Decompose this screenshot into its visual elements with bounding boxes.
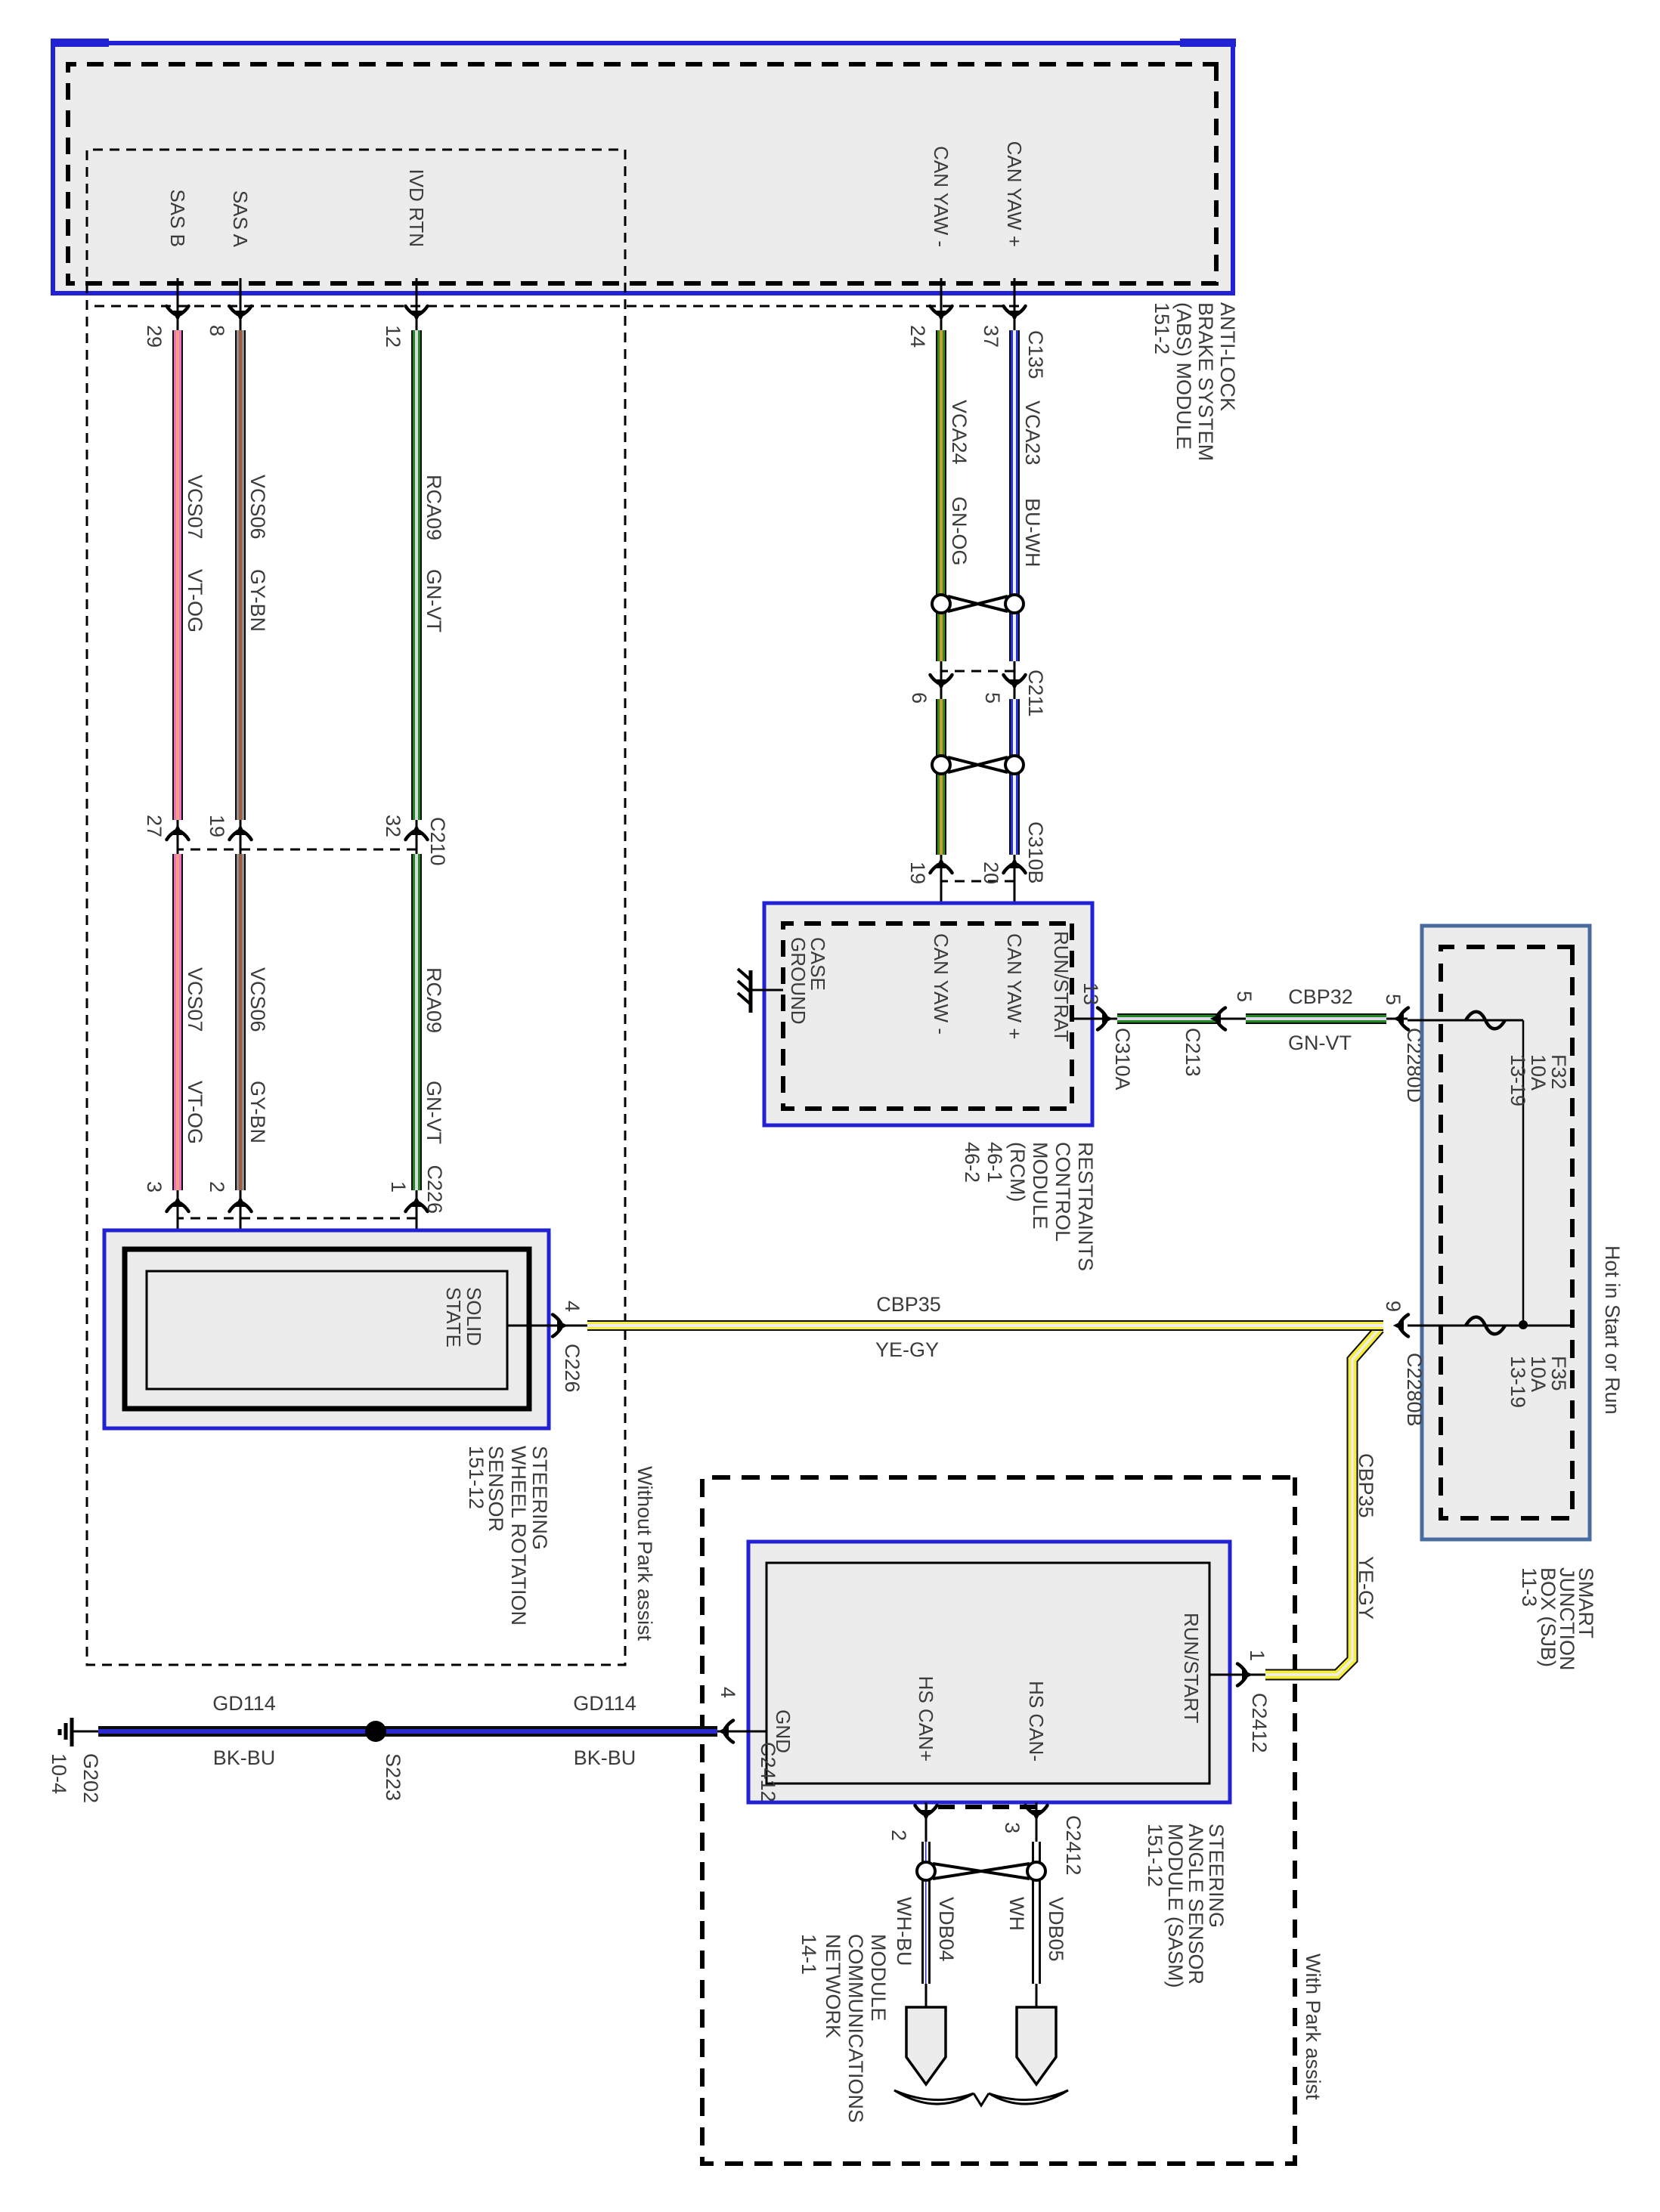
- svg-text:GD114: GD114: [573, 1692, 636, 1715]
- svg-text:VT-OG: VT-OG: [184, 1081, 206, 1144]
- svg-text:8: 8: [206, 325, 228, 336]
- svg-text:CAN YAW +: CAN YAW +: [1003, 933, 1026, 1039]
- svg-text:WH-BU: WH-BU: [893, 1897, 915, 1966]
- wire GD114 BK-BU: [98, 1726, 717, 1737]
- connector arrow SASM pin 3: [1026, 1805, 1048, 1819]
- svg-text:46-2: 46-2: [961, 1142, 983, 1183]
- svg-text:CBP32: CBP32: [1288, 985, 1353, 1008]
- svg-text:29: 29: [143, 325, 166, 348]
- svg-text:RESTRAINTS: RESTRAINTS: [1074, 1142, 1097, 1271]
- svg-text:SAS B: SAS B: [166, 189, 189, 247]
- module communications network label: [797, 1934, 890, 2123]
- svg-text:HS CAN+: HS CAN+: [915, 1676, 937, 1762]
- ABS module connector tab bottom: [51, 39, 109, 47]
- ABS module connector tab top: [1180, 39, 1236, 47]
- svg-text:MODULE (SASM): MODULE (SASM): [1164, 1824, 1187, 1988]
- svg-text:YE-GY: YE-GY: [1355, 1556, 1377, 1620]
- svg-text:GN-VT: GN-VT: [423, 1081, 445, 1144]
- SWRS inner box: [147, 1271, 507, 1389]
- svg-text:GN-VT: GN-VT: [423, 569, 445, 633]
- connector C210 dashed line: [178, 849, 417, 851]
- svg-text:(RCM): (RCM): [1006, 1142, 1029, 1202]
- connector C211 dashed line: [941, 670, 1014, 673]
- svg-text:10-4: 10-4: [48, 1753, 70, 1794]
- svg-text:24: 24: [906, 325, 929, 348]
- svg-text:C310B: C310B: [1024, 821, 1047, 884]
- SASM pin 4 GND wire: [715, 1731, 767, 1733]
- svg-text:10A: 10A: [1527, 1356, 1550, 1392]
- svg-text:RUN/STRAT: RUN/STRAT: [1050, 931, 1073, 1042]
- svg-text:5: 5: [1233, 991, 1256, 1002]
- svg-text:C2412: C2412: [1248, 1693, 1271, 1753]
- svg-text:20: 20: [980, 862, 1002, 884]
- svg-text:VCS07: VCS07: [184, 475, 206, 540]
- fuse F35 label: [1507, 1356, 1570, 1408]
- SWRS label SOLID STATE: [442, 1287, 485, 1347]
- svg-text:CAN YAW -: CAN YAW -: [930, 146, 952, 247]
- connector arrow SJB pin 5 C2280D: [1395, 1008, 1408, 1030]
- svg-text:5: 5: [981, 692, 1004, 704]
- connector arrow C211 pin 5: [1004, 675, 1026, 688]
- wire VCA24 GN-OG segment 2: [936, 699, 946, 855]
- connector arrow ABS pin 24: [931, 306, 952, 320]
- svg-text:13: 13: [1079, 982, 1102, 1005]
- connector arrow C211 pin 6: [931, 675, 952, 688]
- svg-text:NETWORK: NETWORK: [822, 1934, 844, 2038]
- wire RCA09 GN-VT segment 2: [411, 854, 422, 1190]
- connector arrow C213 pin 5: [1212, 1008, 1225, 1030]
- svg-text:MODULE: MODULE: [867, 1934, 890, 2022]
- svg-text:151-12: 151-12: [1144, 1824, 1166, 1887]
- SJB module box: [1422, 926, 1590, 1539]
- svg-text:VCS07: VCS07: [184, 967, 206, 1032]
- svg-text:WHEEL ROTATION: WHEEL ROTATION: [507, 1446, 530, 1626]
- ABS module box: [53, 43, 1233, 293]
- svg-text:1: 1: [1246, 1650, 1268, 1661]
- wire RCA09 GN-VT segment 1: [411, 330, 422, 820]
- wire VCS06 GY-BN segment 2: [235, 854, 246, 1190]
- svg-text:C226: C226: [423, 1165, 446, 1214]
- twisted pair symbol 2: [932, 756, 1024, 774]
- svg-text:C2412: C2412: [1062, 1815, 1085, 1876]
- ABS module label: [1151, 302, 1239, 461]
- svg-text:VT-OG: VT-OG: [184, 569, 206, 633]
- connector arrow SASM pin 1 C2412: [1237, 1664, 1251, 1686]
- svg-text:C135: C135: [1024, 330, 1047, 379]
- svg-text:STEERING: STEERING: [1205, 1824, 1228, 1928]
- RCM module label: [961, 1142, 1097, 1271]
- svg-text:3: 3: [1001, 1822, 1024, 1833]
- svg-text:19: 19: [906, 862, 929, 884]
- svg-text:WH: WH: [1005, 1897, 1028, 1931]
- svg-text:(ABS) MODULE: (ABS) MODULE: [1172, 302, 1195, 450]
- connector arrow C310B pin 20: [1004, 859, 1026, 873]
- svg-text:C211: C211: [1024, 670, 1047, 717]
- svg-text:2: 2: [887, 1830, 910, 1841]
- With Park assist dashed box: [702, 1477, 1295, 2164]
- svg-text:5: 5: [1382, 994, 1404, 1005]
- RCM case ground symbol: [738, 969, 751, 1013]
- G202 ground wire stub: [73, 1731, 98, 1733]
- svg-text:F35: F35: [1547, 1356, 1570, 1391]
- svg-text:VCS06: VCS06: [246, 967, 269, 1032]
- svg-text:C213: C213: [1182, 1028, 1204, 1077]
- svg-text:CAN YAW +: CAN YAW +: [1003, 141, 1026, 247]
- svg-text:IVD RTN: IVD RTN: [405, 169, 428, 247]
- off-page arrow upper: [1017, 2007, 1056, 2084]
- SWRS module box: [104, 1230, 549, 1428]
- SWRS module label: [465, 1446, 551, 1626]
- SJB F32 wire: [1408, 1019, 1523, 1022]
- wire IVD RTN thin path: [416, 278, 418, 1271]
- svg-text:GN-OG: GN-OG: [948, 497, 971, 566]
- svg-text:37: 37: [980, 325, 1002, 348]
- SASM pin 1 wire: [1209, 1674, 1265, 1676]
- fuse F35: [1466, 1317, 1505, 1335]
- svg-text:GN-VT: GN-VT: [1288, 1032, 1352, 1054]
- fuse F32 label: [1507, 1054, 1570, 1106]
- svg-text:4: 4: [717, 1687, 739, 1698]
- SASM module label: [1144, 1824, 1228, 1988]
- wire VCS07 VT-OG segment 2: [172, 854, 183, 1190]
- SJB module label: [1518, 1567, 1597, 1671]
- Without Park assist dashed box: [87, 150, 625, 1665]
- svg-text:2: 2: [206, 1181, 228, 1193]
- svg-text:13-19: 13-19: [1507, 1054, 1529, 1106]
- svg-text:151-12: 151-12: [465, 1446, 488, 1509]
- svg-text:BRAKE SYSTEM: BRAKE SYSTEM: [1194, 302, 1217, 461]
- wire CBP35 YE-GY main vertical: [587, 1320, 1383, 1331]
- svg-text:19: 19: [206, 815, 228, 837]
- wire CBP32 thin path: [1072, 1018, 1408, 1020]
- fuse F32: [1466, 1012, 1505, 1029]
- svg-text:1: 1: [387, 1181, 410, 1193]
- svg-text:9: 9: [1382, 1301, 1404, 1312]
- wire VCS06 GY-BN segment 1: [235, 330, 246, 820]
- wire CAN YAW + thin path: [1014, 278, 1016, 923]
- wire CBP32 GN-VT segment upper: [1246, 1013, 1386, 1024]
- svg-text:C2280B: C2280B: [1403, 1353, 1426, 1427]
- SASM inner box: [767, 1563, 1209, 1784]
- SASM pin 2 wire stub: [925, 1802, 928, 1842]
- wire VDB05 WH: [1032, 1842, 1041, 1984]
- svg-text:GY-BN: GY-BN: [246, 1081, 269, 1143]
- off-page arrow lower: [906, 2007, 946, 2084]
- connector arrow C226 pin 3: [167, 1198, 189, 1211]
- wire VCS07 VT-OG segment 1: [172, 330, 183, 820]
- svg-text:13-19: 13-19: [1507, 1356, 1529, 1408]
- svg-text:3: 3: [143, 1181, 166, 1193]
- svg-text:G202: G202: [79, 1753, 102, 1803]
- connector arrow SASM pin 4 C2412: [720, 1721, 733, 1743]
- svg-text:32: 32: [382, 815, 404, 837]
- wire CBP32 GN-VT segment lower: [1117, 1013, 1217, 1024]
- twisted pair symbol HS CAN: [917, 1862, 1045, 1880]
- RCM case ground wire: [752, 989, 783, 992]
- connector arrow C210 pin 19: [230, 826, 252, 840]
- svg-text:12: 12: [382, 325, 404, 348]
- svg-text:MODULE: MODULE: [1029, 1142, 1051, 1230]
- RCM module box: [764, 903, 1092, 1125]
- wire VCA23 BU-WH segment 2: [1009, 699, 1020, 855]
- SJB dashed outline: [1441, 947, 1572, 1518]
- svg-text:C2412: C2412: [757, 1742, 779, 1802]
- svg-text:CAN YAW -: CAN YAW -: [930, 933, 952, 1035]
- ground G202 symbol: [60, 1718, 72, 1746]
- connector C2412 dashed line pins 2-3: [926, 1805, 1036, 1809]
- SJB junction dot: [1519, 1320, 1528, 1329]
- connector arrow C210 pin 27: [167, 826, 189, 840]
- connector arrow ABS pin 12: [406, 306, 428, 320]
- svg-text:ANTI-LOCK: ANTI-LOCK: [1216, 302, 1239, 411]
- wire VCA23 BU-WH segment 1: [1009, 330, 1020, 661]
- svg-text:VDB04: VDB04: [935, 1897, 958, 1962]
- svg-text:6: 6: [908, 692, 931, 704]
- wire CAN YAW - thin path: [940, 278, 943, 923]
- svg-text:ANGLE SENSOR: ANGLE SENSOR: [1185, 1824, 1207, 1985]
- svg-text:BU-WH: BU-WH: [1021, 498, 1044, 567]
- wire to off-page arrow upper: [1036, 1984, 1038, 2007]
- wire to off-page arrow lower: [925, 1984, 928, 2007]
- svg-text:GD114: GD114: [212, 1692, 276, 1715]
- svg-text:RCA09: RCA09: [423, 967, 445, 1033]
- connector arrow SASM pin 2: [915, 1805, 937, 1819]
- svg-text:11-3: 11-3: [1518, 1567, 1541, 1607]
- svg-text:YE-GY: YE-GY: [875, 1338, 939, 1361]
- svg-text:GY-BN: GY-BN: [246, 569, 269, 632]
- svg-text:COMMUNICATIONS: COMMUNICATIONS: [844, 1934, 867, 2123]
- svg-text:BK-BU: BK-BU: [574, 1746, 636, 1769]
- ABS connector dashed line: [87, 305, 1019, 308]
- connector C310B dashed line: [941, 880, 1014, 883]
- wire VDB04 WH-BU: [921, 1842, 931, 1984]
- connector arrow C226 pin 2: [230, 1198, 252, 1211]
- svg-text:Hot in Start or Run: Hot in Start or Run: [1601, 1245, 1624, 1415]
- ABS module dashed outline: [68, 64, 1216, 283]
- svg-text:151-2: 151-2: [1151, 302, 1173, 354]
- wire SAS A thin path: [240, 278, 242, 1271]
- svg-text:HS CAN-: HS CAN-: [1025, 1681, 1048, 1762]
- svg-text:C310A: C310A: [1111, 1028, 1134, 1091]
- connector arrow C226 pin 1: [406, 1198, 428, 1211]
- svg-text:46-1: 46-1: [983, 1142, 1006, 1183]
- twisted pair symbol 1: [932, 595, 1024, 613]
- RCM dashed outline: [783, 923, 1072, 1109]
- SJB F35 wire: [1408, 1325, 1572, 1327]
- connector arrow ABS pin 29: [167, 306, 189, 320]
- connector arrow SJB pin 9 C2280B: [1395, 1315, 1408, 1337]
- SASM module box: [748, 1542, 1230, 1802]
- svg-text:14-1: 14-1: [797, 1934, 820, 1975]
- SASM pin 3 wire stub: [1036, 1802, 1038, 1842]
- svg-text:GROUND: GROUND: [787, 937, 810, 1025]
- svg-text:VDB05: VDB05: [1045, 1897, 1067, 1962]
- connector arrow C210 pin 32: [406, 826, 428, 840]
- svg-text:RCA09: RCA09: [423, 475, 445, 540]
- svg-text:27: 27: [143, 815, 166, 837]
- svg-text:SAS A: SAS A: [229, 190, 252, 248]
- connector arrow ABS pin 8: [230, 306, 252, 320]
- svg-text:Without Park assist: Without Park assist: [633, 1466, 656, 1641]
- svg-text:STATE: STATE: [442, 1287, 465, 1347]
- svg-text:VCS06: VCS06: [246, 475, 269, 540]
- svg-text:STEERING: STEERING: [528, 1446, 551, 1550]
- connector arrow RCM pin 13 C310A: [1098, 1008, 1111, 1030]
- connector arrow C310B pin 19: [931, 859, 952, 873]
- network bus symbol: [894, 2090, 1068, 2105]
- svg-text:VCA23: VCA23: [1021, 401, 1044, 466]
- svg-text:F32: F32: [1547, 1054, 1570, 1090]
- svg-text:RUN/START: RUN/START: [1180, 1613, 1203, 1723]
- connector arrow ABS pin 37: [1004, 306, 1026, 320]
- svg-text:C226: C226: [561, 1344, 584, 1393]
- svg-text:10A: 10A: [1527, 1054, 1550, 1091]
- svg-text:CBP35: CBP35: [876, 1293, 941, 1316]
- svg-text:With Park assist: With Park assist: [1302, 1954, 1324, 2100]
- wire SAS B thin path: [177, 278, 179, 1271]
- svg-text:BK-BU: BK-BU: [213, 1746, 276, 1769]
- svg-text:CONTROL: CONTROL: [1051, 1142, 1074, 1242]
- svg-text:CBP35: CBP35: [1355, 1453, 1377, 1518]
- svg-text:S223: S223: [382, 1753, 404, 1801]
- RCM pin label CASE GROUND: [787, 937, 829, 1025]
- splice S223: [365, 1721, 386, 1742]
- svg-text:VCA24: VCA24: [948, 400, 971, 465]
- svg-text:4: 4: [561, 1301, 584, 1312]
- wire CBP35 YE-GY branch to SASM: [1265, 1329, 1380, 1675]
- svg-text:SOLID: SOLID: [463, 1287, 485, 1346]
- SWRS pin 4 wire: [507, 1325, 587, 1327]
- connector arrow SWRS pin 4 C226: [553, 1315, 566, 1337]
- connector C226 dashed line: [178, 1217, 417, 1220]
- SWRS middle box: [125, 1249, 529, 1409]
- SJB feed line F32 to F35: [1522, 1020, 1525, 1325]
- svg-text:C210: C210: [426, 817, 449, 866]
- wire VCA24 GN-OG segment 1: [936, 330, 946, 661]
